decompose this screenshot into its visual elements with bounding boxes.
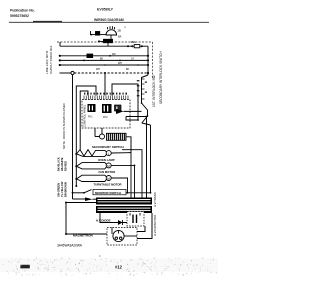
chassis dashed border top [57,41,153,43]
right column wire to transformer [150,125,152,193]
fan motor symbol [106,163,111,168]
rotated label HV capacitor [153,215,157,236]
svg-text:Publication No.: Publication No. [10,9,35,13]
svg-text:GN-GREEN: GN-GREEN [57,183,61,197]
wire color legend rotated text [57,157,68,197]
svg-text:H.V.DIODE: H.V.DIODE [96,218,111,222]
svg-text:SECONDARY SWITCH: SECONDARY SWITCH [92,145,124,149]
board connector pin labels (smudge) [84,93,127,95]
oven lamp loop with secondary switch zigzag [77,150,107,157]
svg-text:RY1: RY1 [88,116,93,119]
top cluster left lead and terminal [90,31,106,35]
secondary switch right wire [122,150,142,198]
svg-text:WIRING DIAGRAM: WIRING DIAGRAM [94,18,124,22]
wire transformer right down to magnetron [137,213,152,239]
label HV diode [96,218,111,222]
wire from interlock column to board pin D [112,84,138,120]
svg-text:6: 6 [99,254,101,258]
monitor switch wire and blade [73,190,92,194]
top cluster lower block and stub to bus [98,35,113,46]
HV diode symbol [118,220,123,225]
monitor switch right wire [126,192,151,194]
header publication number text [10,9,35,19]
left bus wire down from L5 junction [72,75,74,199]
svg-text:8A: 8A [118,35,122,39]
HV transformer secondary winding block [96,206,152,213]
svg-text:CONTROL PANEL: CONTROL PANEL [82,104,86,127]
small component on board [115,105,122,111]
right bus vertical with junctions [147,46,149,75]
scan noise wash (decorative) [0,259,218,273]
low voltage transformer winding (hatched) [107,133,127,140]
svg-text:SECONDARY INTERLOCK SWITCH: SECONDARY INTERLOCK SWITCH [159,51,163,104]
oven lamp socket (top cluster dome) [106,26,117,35]
thermal cutout on L2 [87,54,111,58]
HV capacitor dashed box [127,212,144,227]
label magnetron [73,234,93,238]
turntable tap dots [75,178,77,187]
svg-text:3A45WA3A20WA: 3A45WA3A20WA [57,244,83,248]
svg-text:H.V.TRANS: H.V.TRANS [153,192,157,207]
part number text [57,244,83,248]
HV capacitor plates [130,213,140,223]
lower feed wire to HV transformer [65,202,96,235]
oven lamp symbol [106,151,111,156]
svg-text:SUPPLY CORD 30A: SUPPLY CORD 30A [49,45,53,74]
label monitor switch [95,191,121,195]
fan motor loop [77,163,107,169]
footer page number [20,265,30,269]
label fan motor [99,170,116,174]
bus line L3 [59,59,148,61]
oven lamp right wire [111,153,131,199]
svg-text:FAN MOTOR: FAN MOTOR [99,170,116,174]
fuse F1 on L1 [127,45,143,48]
svg-text:H.V.CAPACITOR: H.V.CAPACITOR [153,215,157,236]
bus line L2 [59,55,148,57]
oven lamp tap dot [75,153,77,155]
magnetron tube symbol [113,230,124,241]
board connector pin row [84,96,128,100]
svg-text:15A: 15A [131,40,136,44]
svg-text:5995275652: 5995275652 [10,14,29,18]
board exit wire to LV transformer [95,128,102,137]
header horizontal rule [9,21,209,24]
relay RY1 on board [88,104,96,112]
chassis dashed border right [152,42,154,78]
svg-text:WH-WHITE: WH-WHITE [60,157,64,171]
monitor switch label box [93,189,126,194]
magnetron feed wire [65,233,107,235]
primary interlock switch blade [141,102,148,110]
magnetron dashed box [107,228,137,246]
svg-text:TURNTABLE MOTOR: TURNTABLE MOTOR [94,183,122,187]
turntable right wire [111,178,127,193]
turntable motor loop [77,175,107,181]
low voltage transformer primary circle [100,134,105,139]
thermal protector arrow to HV transformer [73,197,97,201]
fan motor letter [107,164,110,168]
turntable motor letter [107,176,110,180]
label secondary switch [92,145,124,149]
svg-text:2B: 2B [118,29,122,33]
wire from neutral to board pin C [104,72,106,96]
magnetron leads inside box [112,228,137,237]
scan noise speckle (decorative) [3,34,218,276]
oven lamp letter [108,152,110,156]
nested wire to board pin A [76,86,96,186]
svg-text:WH: WH [96,68,100,71]
top cluster small labels [118,26,127,39]
HV diode wire [100,213,127,223]
svg-text:YL-YELLOW: YL-YELLOW [60,181,64,197]
svg-text:GY: GY [131,58,135,61]
electronic control board dashed box [82,100,130,129]
supply rotated label 120V 60HZ [45,45,53,74]
interlock pin tag marks [137,80,147,96]
label oven lamp [98,158,115,162]
relay contact wires to interlock [124,111,148,121]
svg-text:WH: WH [118,62,122,65]
svg-text:RD: RD [112,53,116,56]
svg-text:n: n [124,26,126,29]
wire transformer to right column [126,137,131,153]
bus line L5 (neutral, dashed right of junction) [60,71,149,74]
label turntable motor [94,183,122,187]
turntable motor symbol [106,176,111,181]
footer sheet number [115,265,123,270]
board internal tiny labels [88,116,108,120]
note rotated text left [62,103,66,149]
svg-text:OVEN LAMP: OVEN LAMP [98,158,115,162]
secondary interlock switch blade [142,110,151,125]
svg-text:NOTE : DOOR IS SHOWN CLOSED: NOTE : DOOR IS SHOWN CLOSED [62,103,66,149]
relay output arrow contact [116,109,124,114]
svg-text:1ST. INTERLOCK SW.: 1ST. INTERLOCK SW. [152,75,156,107]
header WIRING DIAGRAM title [94,18,124,22]
rotated label 1st interlock switch [152,75,156,107]
svg-text:BK: BK [126,68,130,71]
svg-text:BR-BROWN: BR-BROWN [64,182,68,197]
bus line L1 [60,42,148,46]
bus line L4 [59,64,148,66]
header model number text [97,8,114,12]
HV transformer primary winding block [96,198,152,205]
bus junction dots extra [104,60,139,66]
svg-text:RY2: RY2 [103,116,108,119]
rotated label secondary interlock switch [159,51,163,104]
fan motor tap dot [75,165,77,167]
board rotated label electronic control [82,104,86,127]
svg-text:MONITOR SWITCH: MONITOR SWITCH [95,191,121,195]
fuse rating label 15A [131,40,136,44]
svg-text:RD-RED: RD-RED [64,161,68,171]
svg-text:BK: BK [100,58,104,61]
rotated label power transformer [153,192,157,207]
fan motor right wire [111,165,135,200]
wire from relay area down right column [146,117,148,198]
primary interlock switch column with pins [142,75,149,103]
wire color tags on bus lines [96,53,135,71]
svg-text:BK-BLACK: BK-BLACK [57,157,61,171]
relay RY2 on board [102,104,112,113]
nested wire to board pin B [80,91,88,151]
svg-text:EV958ILY: EV958ILY [97,8,114,12]
footer small mark [99,254,101,258]
svg-text:MAGNETRON: MAGNETRON [73,234,93,238]
